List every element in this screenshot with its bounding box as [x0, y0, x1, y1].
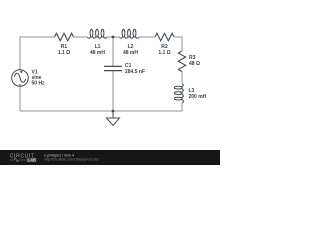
wire left rail top + top-left corner [20, 37, 55, 70]
svg-text:LAB: LAB [28, 157, 36, 162]
wire bottom rail [20, 110, 182, 112]
inductor L2 [119, 29, 139, 38]
CircuitLab logo [9, 153, 36, 162]
wire C1 bottom branch [112, 71, 114, 111]
svg-text:284.5 nF: 284.5 nF [125, 69, 145, 75]
wire L3 to bottom rail [181, 103, 183, 111]
capacitor C1 [104, 66, 122, 70]
inductor L3 [174, 84, 183, 104]
wire C1 top branch [112, 37, 114, 66]
wire R1 to L1 [74, 36, 88, 38]
svg-text:200 mH: 200 mH [189, 94, 207, 100]
node A junction dot [112, 36, 115, 39]
wire left rail bottom [19, 86, 21, 111]
voltage source V1 [12, 70, 29, 87]
wire R3 to L3 [181, 72, 183, 84]
svg-text:48 Ω: 48 Ω [189, 61, 200, 67]
svg-text:50 Hz: 50 Hz [32, 81, 46, 87]
svg-text:48 mH: 48 mH [90, 50, 105, 56]
svg-text:1.1 Ω: 1.1 Ω [158, 50, 170, 56]
footer credit text [44, 154, 99, 162]
resistor R1 [55, 33, 74, 41]
labels [32, 44, 207, 100]
svg-text:1.1 Ω: 1.1 Ω [58, 50, 70, 56]
svg-text:http://circuitlab.com/c9hp6qwu: http://circuitlab.com/c9hp6qwu7ca62 [44, 158, 99, 162]
wire R2 to right rail top [175, 37, 183, 51]
ground [107, 111, 120, 126]
resistor R2 [155, 33, 174, 41]
wire L2 to R2 [139, 36, 155, 38]
resistor R3 [178, 51, 185, 72]
inductor L1 [87, 29, 107, 38]
junction dot at bottom rail [112, 110, 115, 113]
footer bar [0, 150, 220, 165]
svg-text:48 mH: 48 mH [123, 50, 138, 56]
wire L1 to L2 (node A span) [107, 36, 120, 38]
